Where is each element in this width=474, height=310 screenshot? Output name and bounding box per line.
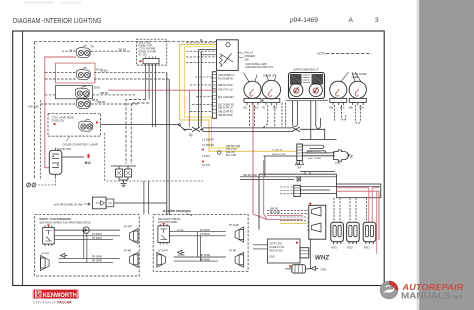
module drop red wire [253,103,267,220]
svg-text:SEE RADIO WIRING FOR SPKR FEED: SEE RADIO WIRING FOR SPKR FEED DETAIL [40,221,92,224]
red feed wire to dome lamps [45,57,76,113]
black feed row under yellow [264,155,297,157]
relay panel connector red dot [139,60,141,62]
svg-text:Dy: Dy [189,133,193,137]
svg-text:3: 3 [375,17,379,24]
lamp feed loop box right [337,184,381,198]
reading lamp connector 2 [347,222,360,244]
module bulb right [309,83,322,96]
svg-text:7B BLK: 7B BLK [100,70,109,73]
courtesy output wire to jamb switch [101,124,173,126]
bulb 5 drop wires [335,105,346,121]
module drop wires left pair with U loop [293,103,298,127]
svg-text:RR SPKR: RR SPKR [200,259,211,261]
svg-text:36B RD: 36B RD [118,48,127,51]
Kenworth logo K emblem [35,291,41,298]
dome lamp 2 red service loop box [55,63,95,83]
dome lamp bulb 1 [244,73,262,99]
bulkhead connector strip [212,72,216,119]
svg-text:36 C: 36 C [69,49,76,53]
door switch [49,148,62,177]
dual dome lamp module housing [289,73,325,99]
wires left of sleeper power connector [280,187,294,194]
Kenworth logo red box [33,289,79,299]
wires into strip from left [190,77,212,111]
lighter feed wire 2 [302,155,335,157]
svg-text:DOOR SW: DOOR SW [57,147,71,151]
svg-text:C4 37B: C4 37B [202,164,210,167]
red lamp feed wire lower [337,191,380,240]
svg-text:RR SPKR: RR SPKR [92,257,103,259]
svg-text:30 RD 12V: 30 RD 12V [52,119,65,123]
vertical junction riser [264,156,266,177]
relay panel connector [143,59,159,64]
svg-text:38B RD: 38B RD [97,101,106,104]
bottom pigtail spade arrow [311,266,318,270]
dome lamp 2 wires [45,72,169,79]
svg-text:NOTE: NOTE [317,52,325,56]
drops to reading lamp 1 [334,198,340,223]
svg-text:39B SLPR FD: 39B SLPR FD [218,110,233,113]
wires into speaker module [267,210,307,220]
svg-text:LF SLPR: LF SLPR [158,249,168,252]
watermark swirl icon [380,281,399,300]
dome lamp 3 wire [45,94,135,96]
reading lamp connector 3 [363,222,376,244]
scan smudge [24,1,54,4]
door switch ground drop [38,177,56,185]
speaker pair module box [307,203,326,240]
door jamb switch symbol [173,125,187,135]
svg-text:SLPR DOME/RDG LP: SLPR DOME/RDG LP [293,68,319,72]
svg-text:CAB DOME LP: CAB DOME LP [218,74,235,77]
dome lamp bulb 6 [349,72,366,98]
svg-text:DOME LP SW: DOME LP SW [270,247,285,249]
svg-text:RT SLPR: RT SLPR [229,224,239,227]
module drop wire bend to strip [311,103,321,140]
wire bend to diode pair [126,100,149,165]
main red power wire horizontal [108,89,216,91]
sleeper speaker left bottom [157,252,166,267]
svg-text:93B LTR RET: 93B LTR RET [308,158,322,160]
link wires between audio boxes [144,181,149,214]
dome lamp 4 [76,97,90,109]
svg-text:B+: B+ [200,38,204,42]
dashed feed wires into dimmer [186,43,216,63]
svg-text:30B RD PWR: 30B RD PWR [218,114,233,117]
drops to reading lamp 3 [365,198,367,223]
bottom pigtail connector [285,265,305,273]
svg-text:RT SPKR: RT SPKR [200,230,210,232]
door switch output wire [62,156,84,158]
bulb 6 connector base [349,98,367,109]
courtesy lamp splice dot left [54,123,56,125]
gray sidebar band [419,0,474,310]
dome lamp 3 housing box [55,86,92,99]
svg-text:BLK: BLK [273,107,278,110]
svg-text:7B: 7B [90,45,94,49]
sleeper speaker wire rows [169,232,226,236]
svg-text:LT GA YEL: LT GA YEL [272,149,283,152]
svg-text:FOR SPKR FEED: FOR SPKR FEED [158,221,178,224]
svg-text:36B RD PWR: 36B RD PWR [243,175,257,177]
svg-text:7B: 7B [262,107,265,110]
svg-text:Z: Z [349,154,353,159]
ASD diode leader arrow [84,203,90,206]
sleeper control right connector [300,248,309,258]
cab harness dashed boundary inner step [41,100,204,181]
yellow panel light wire 2 [185,47,240,148]
ASD output wire [114,202,167,204]
svg-text:A: A [349,17,354,24]
bulb 5 connector base [329,98,347,109]
sleeper speaker right top [235,227,244,242]
dimmer rheostat zigzag [219,54,233,67]
svg-text:B+ 12V: B+ 12V [139,53,148,56]
svg-text:BLK: BLK [340,106,345,109]
svg-text:C1 30B RD: C1 30B RD [202,139,214,142]
red lamp feed wire upper [337,187,380,189]
svg-text:38B: 38B [349,106,354,109]
junction box outline [259,174,337,229]
vertical pair inside sleeper box [198,232,201,261]
red sleeper feed rows [267,215,303,219]
svg-text:C2 36B RD: C2 36B RD [202,144,214,147]
spare drop pair to bus [282,103,286,128]
wires right of sleeper power connector [300,187,380,194]
dome lamp 4 wires [41,103,139,105]
wire rows along box top [240,177,337,180]
sleeper audio dashed box [153,214,248,271]
dome lamp 1 [76,46,90,58]
svg-text:A/SLPR DOME LP SW: A/SLPR DOME LP SW [54,202,83,206]
reading lamp connector 1 [331,222,344,244]
red drops to reading lamps [369,188,372,223]
speaker wire rows left box [54,236,120,240]
svg-text:36B RD PWR: 36B RD PWR [226,146,240,148]
svg-text:A DIVISION OF PACCAR: A DIVISION OF PACCAR [33,301,72,305]
sleeper bulkhead connector [295,144,304,170]
svg-text:37B CTSY: 37B CTSY [226,149,237,151]
left front spade arrow [61,253,68,257]
svg-text:PNL LP: PNL LP [245,51,254,55]
splice mark B12 red [87,154,90,158]
svg-text:RDG: RDG [364,247,370,250]
diode pair component [111,166,136,180]
cab harness dashed boundary top [34,41,218,43]
svg-text:RR SPKR: RR SPKR [200,255,211,257]
svg-text:RT RR: RT RR [229,249,236,252]
red feed wire lower run [45,113,49,168]
ground symbol [121,180,127,187]
relay panel dashed box [136,39,166,65]
speaker right front [129,229,138,244]
red tail drop right [376,191,378,254]
spade arrow above sleeper connector [297,177,301,181]
yellow panel light wire 1 [180,44,297,151]
dome lamp bulb 5 [330,72,349,98]
svg-text:BLK GND: BLK GND [270,212,280,214]
sleeper feed trunk pair [167,72,169,215]
svg-text:C3 BLK: C3 BLK [202,155,211,158]
courtesy lamp dashed box [48,113,101,136]
svg-text:36C: 36C [243,106,248,109]
dome lamp bulb 2 [262,74,281,99]
racetrack harness bus upper line [203,127,291,129]
vertical pair inside left box [84,230,87,262]
svg-text:SLEEPER SPEAKERS: SLEEPER SPEAKERS [163,209,191,213]
svg-text:RDG: RDG [332,247,338,250]
yellow wire into speaker module [280,222,307,224]
bulb 1 drop wires [250,105,255,127]
module bulb left [290,83,303,96]
trunk top bend [199,50,217,55]
svg-text:BLK GND RET: BLK GND RET [218,96,234,99]
harness trunk vertical pair [199,52,202,127]
svg-text:LTR: LTR [335,161,340,165]
drawing frame outer border [13,31,385,286]
panel dimmer rheostat box [217,40,239,71]
svg-text:RT SPKR: RT SPKR [92,234,102,236]
svg-text:RT RR: RT RR [124,249,131,252]
svg-text:RT SPKR: RT SPKR [200,234,210,236]
svg-text:RT SPKR: RT SPKR [92,238,102,240]
svg-text:DOME LP: DOME LP [263,74,275,78]
dimmer label leaders [238,52,243,58]
svg-text:RDG: RDG [347,247,353,250]
drawing frame inner left border line [22,31,24,286]
svg-text:39 B: 39 B [94,86,100,90]
speaker module ground drop [305,239,310,269]
relay panel output wires down [146,64,149,100]
sleeper control solid box [268,239,301,263]
svg-text:B12: B12 [85,161,91,165]
svg-text:93A LTR FD: 93A LTR FD [308,150,320,153]
courtesy lamp [79,119,93,131]
red riser and diagonal [264,160,267,220]
svg-text:SW: SW [245,57,250,61]
drops to reading lamp 2 [350,198,356,223]
svg-text:39B RD: 39B RD [100,92,109,95]
junction box top ticks [300,172,335,175]
racetrack harness bus lower line [203,130,291,132]
module base pins [289,99,324,103]
dome lamp 2 [76,68,90,80]
courtesy leader line [66,137,70,142]
svg-text:GND: GND [321,268,327,272]
cab harness dashed boundary left [33,42,35,179]
svg-text:LF FRT: LF FRT [41,253,50,256]
sleeper speaker right bottom [235,252,244,267]
speaker left front [41,256,50,271]
svg-text:38B RD: 38B RD [270,209,278,211]
dome lamp 3 [75,86,89,98]
svg-text:SLPR CTRL: SLPR CTRL [270,244,283,246]
sleeper lf spade arrow [178,250,185,254]
bulb 2 drop wires [263,105,275,128]
bulb 6 drop wires [355,105,360,124]
svg-text:GND: GND [270,256,275,258]
lighter feed wire 1 [302,152,335,154]
sleeper power connector [294,185,301,196]
svg-text:24 GA: 24 GA [178,254,185,257]
svg-text:36B: 36B [295,162,300,166]
svg-text:A/P BLK: A/P BLK [28,105,39,109]
racetrack rounded end [202,128,204,131]
red drop to splice [188,90,190,127]
svg-text:38B SLPR LP: 38B SLPR LP [218,107,233,110]
bulb 1 connector base [243,98,261,109]
shield loop on lighter feed [302,145,324,148]
svg-text:LAMP: LAMP [352,75,359,79]
svg-text:23 GA: 23 GA [177,229,184,232]
dimmer knob circle [226,43,230,47]
green ground stub [380,185,382,197]
svg-text:RDG LP SW: RDG LP SW [270,250,284,252]
svg-text:RD DOME FD: RD DOME FD [218,78,233,81]
svg-text:37B CTSY LP: 37B CTSY LP [218,89,233,92]
svg-text:RR SPKR: RR SPKR [92,261,103,263]
sleeper control red dot [296,242,298,244]
svg-text:36B RD PWR: 36B RD PWR [218,84,233,87]
svg-text:RT FRT: RT FRT [124,225,133,228]
cigar lighter component [334,150,351,161]
svg-text:WHZ: WHZ [315,255,329,261]
cab audio dashed box [35,214,140,276]
control box feed stubs [253,245,268,249]
svg-text:93A LTR: 93A LTR [226,151,235,154]
svg-text:39B: 39B [329,106,334,109]
wire from loops to sleeper strip [300,139,337,141]
courtesy lamp splice dot right [96,121,98,123]
bulb 2 connector base [262,99,280,110]
svg-text:DIAGRAM -INTERIOR LIGHTING: DIAGRAM -INTERIOR LIGHTING [13,16,102,25]
svg-text:DOOR COURTESY LAMP: DOOR COURTESY LAMP [63,142,98,146]
splice X right [292,127,325,140]
svg-text:36A: 36A [297,167,302,170]
speaker right rear [129,252,138,267]
svg-text:RADIO / CAB SPEAKERS: RADIO / CAB SPEAKERS [40,217,71,221]
svg-text:CAB DOME LAMP: CAB DOME LAMP [245,62,267,66]
dome lamp 1 wires [62,50,130,52]
sleeper radio relay [158,223,170,245]
svg-text:BLK GND: BLK GND [226,155,236,157]
connector rings C2 [27,183,37,187]
connector strip lower pigtails [202,139,221,168]
splice X left [183,127,203,132]
ASD diode module [92,197,113,209]
svg-text:p94-1469: p94-1469 [290,17,318,24]
svg-text:KENWORTH: KENWORTH [43,292,77,299]
isolation diode [54,227,120,233]
radio relay [43,224,55,246]
